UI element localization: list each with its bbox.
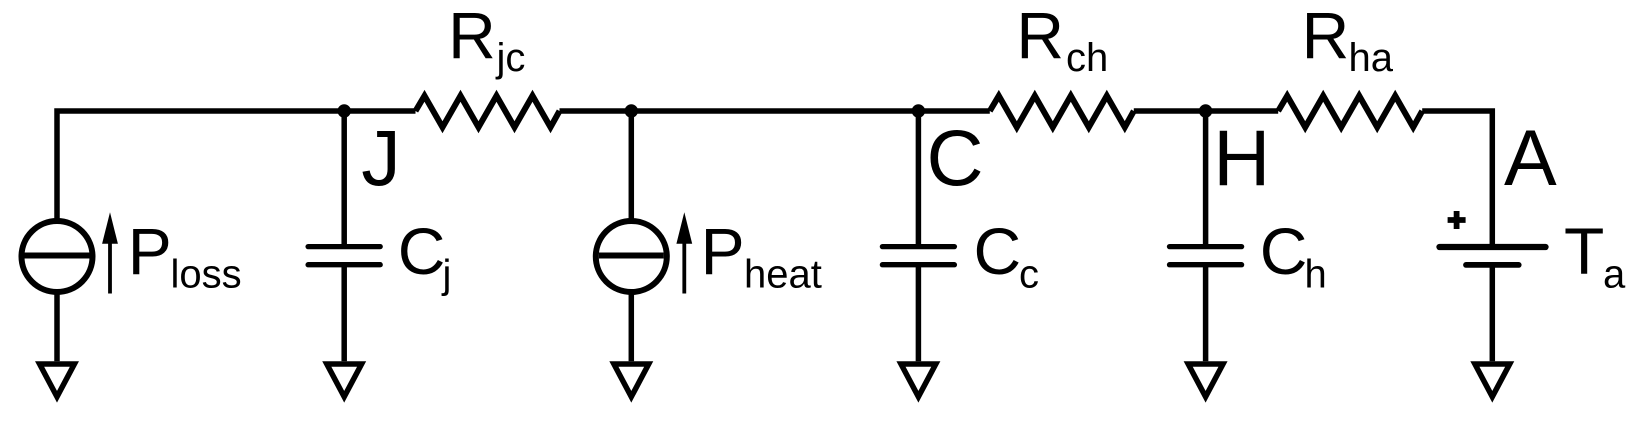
wire node C down to capacitor Cc xyxy=(916,111,922,245)
capacitor Cc bottom plate xyxy=(882,262,954,267)
svg-text:P: P xyxy=(701,214,745,288)
svg-text:ha: ha xyxy=(1349,36,1394,80)
capacitor Ch bottom plate xyxy=(1170,262,1242,267)
current source P_loss arrow xyxy=(102,212,118,293)
node H junction dot xyxy=(1199,104,1212,117)
capacitor Cc top plate xyxy=(882,244,954,249)
ground (Cc branch) xyxy=(901,364,936,397)
wire capacitor Ch bottom to ground xyxy=(1203,266,1209,361)
wire capacitor Cj bottom to ground xyxy=(341,266,347,361)
resistor R_ha xyxy=(1278,96,1422,127)
wire P_loss source bottom to ground xyxy=(54,292,60,361)
svg-text:R: R xyxy=(448,0,496,73)
svg-text:a: a xyxy=(1603,252,1626,296)
svg-text:P: P xyxy=(128,214,172,288)
svg-text:C: C xyxy=(1260,214,1308,288)
capacitor Cj top plate xyxy=(308,244,380,249)
node J junction dot xyxy=(338,104,351,117)
wire capacitor Cc bottom to ground xyxy=(916,266,922,361)
wire top bus from R_ha to top-right corner down to battery xyxy=(1422,111,1492,245)
resistor R_ch xyxy=(990,96,1134,127)
svg-text:h: h xyxy=(1305,252,1327,296)
current source P_loss chord xyxy=(25,253,90,259)
battery Ta short plate xyxy=(1466,262,1519,268)
ground (Ta branch) xyxy=(1475,364,1510,397)
wire top bus from R_jc to R_ch through nodes xyxy=(560,108,990,114)
svg-text:c: c xyxy=(1019,252,1039,296)
ground (P_loss branch) xyxy=(40,364,75,397)
svg-text:C: C xyxy=(927,113,984,202)
svg-text:j: j xyxy=(442,252,452,296)
wire P_heat source bottom to ground xyxy=(629,292,635,361)
battery plus sign xyxy=(1448,211,1466,229)
svg-text:H: H xyxy=(1213,113,1270,202)
svg-text:J: J xyxy=(361,113,401,202)
svg-text:R: R xyxy=(1016,0,1064,73)
svg-text:T: T xyxy=(1564,214,1604,288)
svg-text:ch: ch xyxy=(1066,36,1108,80)
ground (P_heat branch) xyxy=(614,364,649,397)
svg-text:A: A xyxy=(1504,113,1557,202)
node C junction dot xyxy=(912,104,925,117)
wire top bus from R_ch to R_ha xyxy=(1134,108,1278,114)
svg-text:C: C xyxy=(974,214,1022,288)
current source P_heat chord xyxy=(599,253,664,259)
wire left branch: top-left corner down to P_loss source xyxy=(57,111,416,222)
battery Ta long plate xyxy=(1440,244,1546,250)
svg-text:jc: jc xyxy=(496,36,526,80)
ground (Ch branch) xyxy=(1188,364,1223,397)
wire node J down to capacitor Cj xyxy=(341,111,347,245)
capacitor Ch top plate xyxy=(1170,244,1242,249)
svg-text:heat: heat xyxy=(744,252,822,296)
svg-text:loss: loss xyxy=(171,252,242,296)
svg-text:R: R xyxy=(1302,0,1350,73)
wire node H down to capacitor Ch xyxy=(1203,111,1209,245)
current source P_heat arrow xyxy=(676,212,692,293)
node 2 junction dot (P_heat tap) xyxy=(625,104,638,117)
ground (Cj branch) xyxy=(327,364,362,397)
wire node 2 down to P_heat source xyxy=(629,111,635,222)
wire battery Ta bottom to ground xyxy=(1490,266,1496,361)
resistor R_jc xyxy=(416,96,560,127)
svg-text:C: C xyxy=(398,214,446,288)
current source P_loss circle xyxy=(22,221,93,292)
capacitor Cj bottom plate xyxy=(308,262,380,267)
current source P_heat circle xyxy=(596,221,667,292)
